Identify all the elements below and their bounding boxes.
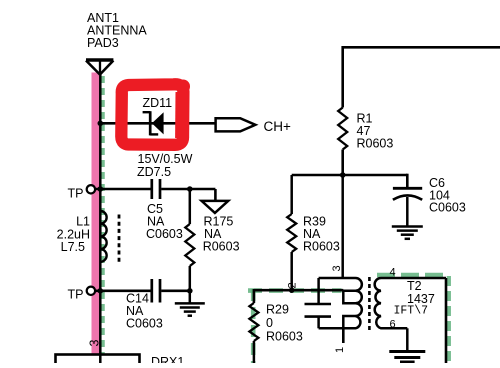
svg-text:C0603: C0603 <box>146 227 183 241</box>
wire TP2 to C14 <box>95 289 151 292</box>
capacitor C14 <box>150 279 153 303</box>
label ANT1 ANTENNA PAD3 <box>87 11 147 50</box>
wire top rail right <box>343 46 500 49</box>
wire C14 to ground junction <box>161 289 190 292</box>
wire TP1 to C5 <box>95 188 151 191</box>
svg-text:DRX1: DRX1 <box>151 355 184 363</box>
box DRX1 <box>56 355 140 368</box>
wire C6 corner <box>406 174 409 188</box>
svg-text:C0603: C0603 <box>429 201 466 215</box>
green dashed highlight R29 branch <box>251 289 256 363</box>
capacitor T2 internal plates <box>305 303 332 306</box>
svg-text:1: 1 <box>334 347 346 353</box>
green dashed highlight tap rail <box>248 288 342 293</box>
svg-text:6: 6 <box>390 319 396 331</box>
svg-text:L1: L1 <box>76 215 90 229</box>
capacitor T2 internal stub bottom <box>317 317 320 329</box>
svg-text:3: 3 <box>88 340 102 347</box>
capacitor C5 <box>150 179 153 199</box>
ground under R175 <box>175 303 205 315</box>
svg-text:R0603: R0603 <box>203 240 240 254</box>
core T2 dashed <box>368 277 371 330</box>
svg-text:0: 0 <box>266 316 273 330</box>
svg-text:TP: TP <box>68 186 84 200</box>
node junction TP2 <box>98 288 104 294</box>
wire mid rail <box>292 174 408 177</box>
svg-text:TP: TP <box>68 288 84 302</box>
green dashed box T2 right <box>447 276 451 363</box>
wire T2 primary bottom rail <box>319 327 356 330</box>
wire pin1 stub <box>342 328 345 343</box>
resistor R29 <box>249 303 258 341</box>
inductor L1 <box>100 211 106 262</box>
svg-text:C0603: C0603 <box>126 317 163 331</box>
ground under C6 <box>392 227 423 239</box>
resistor R1 <box>338 108 347 150</box>
node junction pin2 <box>289 287 295 293</box>
wire antenna net vertical <box>99 74 102 364</box>
node junction C14/R175 <box>187 288 193 294</box>
svg-text:R0603: R0603 <box>303 240 340 254</box>
core L1 dashed <box>118 215 121 263</box>
wire C5 to corner <box>161 188 215 191</box>
wire R29 bottom lead <box>253 341 256 363</box>
wire R1 top lead <box>341 46 344 108</box>
svg-text:3: 3 <box>331 265 343 271</box>
svg-text:IFT\7: IFT\7 <box>394 305 429 318</box>
svg-text:4: 4 <box>390 267 396 279</box>
wire R1 bottom lead <box>341 150 344 176</box>
wire to R175 <box>189 189 192 224</box>
wire R29 corner <box>253 289 256 303</box>
svg-text:ZD11: ZD11 <box>143 96 173 110</box>
ground under pin6 <box>389 352 425 363</box>
wire pin4 net right vertical <box>445 278 448 363</box>
wire pin3 line <box>341 175 344 278</box>
svg-text:PAD3: PAD3 <box>87 36 119 50</box>
transformer T2 secondary winding <box>375 278 446 328</box>
svg-text:15V/0.5W: 15V/0.5W <box>138 152 193 166</box>
highlight red rectangle around ZD11 <box>121 84 183 144</box>
svg-text:L7.5: L7.5 <box>61 240 85 254</box>
svg-text:R29: R29 <box>266 303 289 317</box>
wire tap rail to pin2/R29 <box>254 289 343 292</box>
wire pin6 to ground <box>406 328 409 350</box>
node junction at ZD11 tap <box>98 121 104 127</box>
node junction R1 bottom <box>340 172 346 178</box>
svg-text:CH+: CH+ <box>264 119 291 134</box>
node junction R175 tap <box>187 186 193 192</box>
diode ZD11 zener <box>143 111 164 135</box>
capacitor C6 <box>393 187 422 190</box>
antenna ANT1 <box>86 60 113 75</box>
green dashed box T2 top <box>377 273 449 278</box>
svg-text:ZD7.5: ZD7.5 <box>137 165 171 179</box>
wire R39 bottom lead <box>290 252 293 290</box>
wire R175 to ground <box>189 266 192 303</box>
wire R39 top lead <box>290 175 293 214</box>
arrow down connector <box>202 201 229 213</box>
wire C6 to ground <box>406 197 409 227</box>
svg-text:R0603: R0603 <box>266 330 303 344</box>
capacitor T2 internal stub top <box>317 278 320 304</box>
port CH+ arrow <box>216 118 256 131</box>
node ANT highlight pink bar <box>92 73 100 355</box>
node junction TP1 <box>98 186 104 192</box>
resistor R175 <box>185 224 194 266</box>
resistor R39 <box>287 214 296 252</box>
wire ZD11 to CH+ <box>100 122 215 125</box>
svg-text:2: 2 <box>287 282 299 288</box>
transformer T2 primary winding <box>319 278 362 328</box>
svg-text:T2: T2 <box>407 279 422 293</box>
svg-text:R0603: R0603 <box>357 137 394 151</box>
node ANT green dashed highlight <box>100 76 104 354</box>
